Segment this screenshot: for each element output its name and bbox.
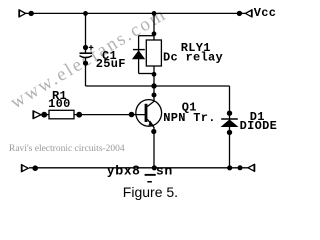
svg-text:Ravi's electronic circuits-200: Ravi's electronic circuits-2004 [9,144,125,154]
svg-text:25uF: 25uF [96,57,126,71]
svg-text:100: 100 [48,97,71,111]
svg-text:Figure 5.: Figure 5. [123,184,178,200]
svg-text:Dc relay: Dc relay [163,51,223,65]
svg-text:NPN Tr.: NPN Tr. [163,111,216,125]
svg-text:ybx8: ybx8 [107,163,141,178]
svg-text:DIODE: DIODE [240,119,278,133]
svg-text:sn: sn [156,163,173,178]
svg-text:Vcc: Vcc [254,6,277,20]
